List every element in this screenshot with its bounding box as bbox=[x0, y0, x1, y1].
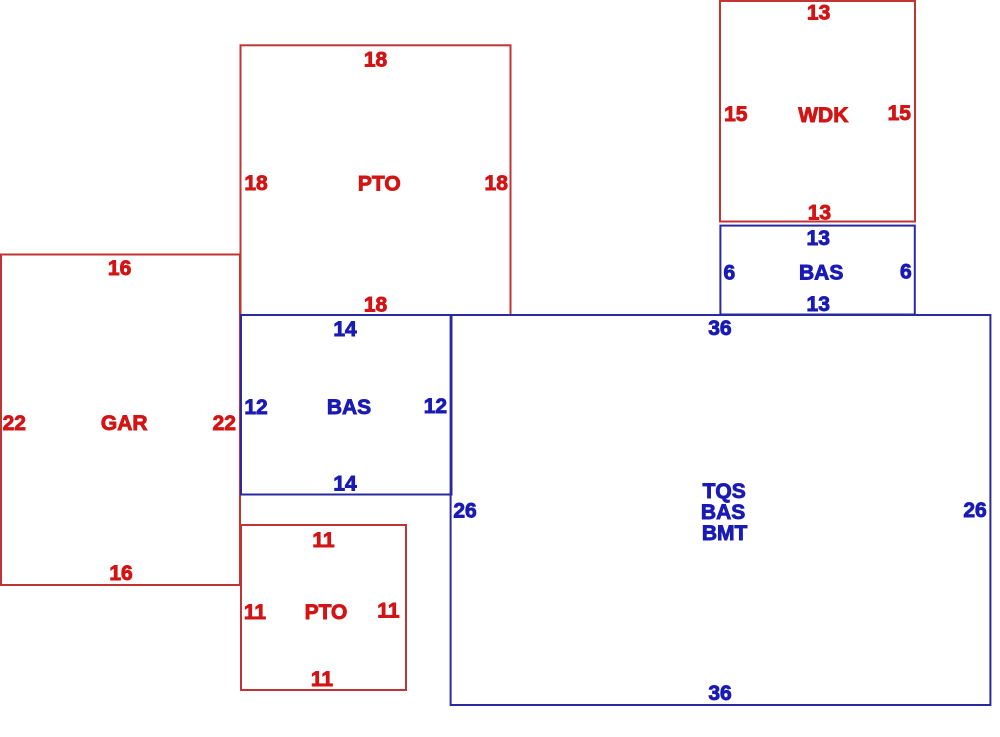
room PTO (upper) outline bbox=[241, 45, 511, 315]
svg-text:13: 13 bbox=[808, 202, 831, 225]
svg-text:BAS: BAS bbox=[799, 262, 843, 285]
svg-text:13: 13 bbox=[807, 2, 830, 25]
room WDK outline bbox=[720, 1, 915, 222]
svg-text:16: 16 bbox=[109, 562, 132, 585]
svg-text:PTO: PTO bbox=[305, 601, 348, 624]
svg-text:13: 13 bbox=[807, 227, 830, 250]
svg-text:13: 13 bbox=[807, 293, 830, 316]
room TQS/BAS/BMT outline bbox=[451, 315, 991, 705]
room GAR outline bbox=[1, 255, 240, 586]
svg-text:WDK: WDK bbox=[798, 104, 848, 127]
svg-text:BAS: BAS bbox=[327, 396, 371, 419]
svg-text:TQS: TQS bbox=[703, 480, 746, 503]
room BAS (middle) outline bbox=[241, 315, 452, 495]
svg-text:26: 26 bbox=[963, 499, 986, 522]
svg-text:PTO: PTO bbox=[358, 173, 401, 196]
room PTO (lower) outline bbox=[241, 525, 406, 690]
svg-text:12: 12 bbox=[244, 396, 267, 419]
svg-text:14: 14 bbox=[333, 473, 357, 496]
svg-text:6: 6 bbox=[724, 262, 736, 285]
svg-text:26: 26 bbox=[453, 500, 476, 523]
svg-text:11: 11 bbox=[377, 599, 400, 622]
svg-text:18: 18 bbox=[485, 172, 509, 195]
svg-text:12: 12 bbox=[424, 395, 447, 418]
svg-text:11: 11 bbox=[244, 601, 267, 624]
svg-text:14: 14 bbox=[333, 318, 357, 341]
svg-text:15: 15 bbox=[724, 103, 748, 126]
svg-text:BMT: BMT bbox=[702, 522, 748, 545]
svg-text:GAR: GAR bbox=[101, 412, 148, 435]
svg-text:18: 18 bbox=[244, 172, 268, 195]
svg-text:11: 11 bbox=[312, 529, 335, 552]
svg-text:22: 22 bbox=[3, 412, 26, 435]
svg-text:15: 15 bbox=[888, 102, 912, 125]
svg-text:36: 36 bbox=[708, 317, 731, 340]
svg-text:6: 6 bbox=[900, 260, 912, 283]
svg-text:16: 16 bbox=[108, 257, 131, 280]
svg-text:22: 22 bbox=[213, 412, 236, 435]
svg-text:18: 18 bbox=[364, 49, 388, 72]
svg-text:11: 11 bbox=[311, 668, 334, 691]
room BAS (upper right) outline bbox=[720, 226, 914, 315]
svg-text:18: 18 bbox=[364, 294, 388, 317]
svg-text:BAS: BAS bbox=[701, 501, 745, 524]
svg-text:36: 36 bbox=[708, 682, 731, 705]
